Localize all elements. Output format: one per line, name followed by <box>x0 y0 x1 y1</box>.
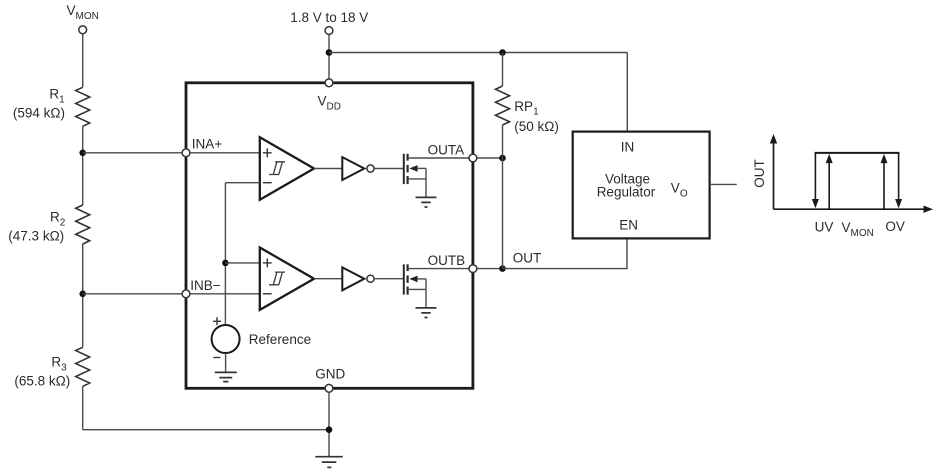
svg-text:(65.8 kΩ): (65.8 kΩ) <box>14 374 70 389</box>
wire reference to ground <box>225 353 227 372</box>
voltage source Reference <box>212 325 240 353</box>
pin OUTB <box>469 265 477 273</box>
resistor R2 <box>76 205 90 244</box>
svg-text:OUTB: OUTB <box>428 253 466 268</box>
node RP1 top junction dot <box>499 49 506 56</box>
arrowhead x-axis <box>924 206 934 213</box>
svg-text:Reference: Reference <box>249 332 311 347</box>
wire R1 to R2 <box>82 126 84 205</box>
wire reference vertical <box>224 183 226 326</box>
node OUTA junction dot <box>499 155 506 162</box>
graph y-axis OUT <box>773 142 775 210</box>
svg-text:1.8 V to 18 V: 1.8 V to 18 V <box>290 10 368 25</box>
node ground junction dot <box>326 426 333 433</box>
svg-text:(594 kΩ): (594 kΩ) <box>13 106 65 121</box>
wire node B to INB- <box>83 293 260 295</box>
wire R2 to R3 <box>82 244 84 347</box>
arrowhead y-axis <box>770 134 777 144</box>
svg-text:OV: OV <box>885 219 905 234</box>
waveform rising edge at OV (up arrow) <box>883 162 885 210</box>
main comparator IC box <box>186 83 473 389</box>
svg-text:INB−: INB− <box>190 278 221 293</box>
wire U1B out to buffer B <box>314 278 342 280</box>
node supply junction dot <box>326 49 333 56</box>
hysteresis symbol U1B <box>269 272 285 285</box>
svg-text:INA+: INA+ <box>192 136 223 151</box>
svg-text:OUT: OUT <box>513 251 542 266</box>
comparator U1A <box>260 137 314 199</box>
wire R3 to ground rail <box>82 386 84 429</box>
wire bottom ground rail <box>83 429 329 431</box>
voltage regulator box <box>573 132 710 239</box>
minus sign reference <box>213 357 220 359</box>
pin INB- <box>182 290 190 298</box>
pin GND <box>325 384 333 392</box>
wire VO output stub <box>710 183 737 185</box>
svg-text:UV: UV <box>815 220 834 235</box>
svg-text:OUTA: OUTA <box>428 142 465 157</box>
plus sign reference <box>213 317 221 325</box>
wire GND pin to ground <box>328 392 330 456</box>
wire drain Q1 to OUTA <box>408 157 503 159</box>
node OUTB junction dot <box>499 265 506 272</box>
hysteresis symbol U1A <box>269 162 285 175</box>
bubble buffer A <box>367 165 374 172</box>
resistor R1 <box>76 87 90 126</box>
graph x-axis <box>774 208 926 210</box>
wire U1A minus stub <box>225 182 259 184</box>
wire OUT to EN <box>503 238 628 268</box>
waveform rising edge at UV (up arrow) <box>828 162 830 210</box>
resistor RP1 <box>496 86 510 125</box>
resistor R3 <box>76 347 90 386</box>
wire V_MON to R1 <box>82 34 84 87</box>
buffer A <box>342 157 364 180</box>
node B junction dot <box>79 291 86 298</box>
waveform falling edge at UV (down arrow) <box>814 153 816 201</box>
bubble buffer B <box>367 275 374 282</box>
svg-text:(47.3 kΩ): (47.3 kΩ) <box>8 229 64 244</box>
terminal supply <box>325 27 333 35</box>
svg-text:EN: EN <box>619 217 638 232</box>
wire U1B plus stub <box>225 262 259 264</box>
ground Q1 <box>416 197 437 207</box>
svg-text:IN: IN <box>621 140 635 155</box>
comparator U1B <box>260 248 314 310</box>
svg-text:Regulator: Regulator <box>597 184 656 199</box>
pin OUTA <box>469 154 477 162</box>
terminal V_MON <box>79 26 87 34</box>
node A junction dot <box>79 150 86 157</box>
wire node A to INA+ <box>83 152 260 154</box>
wire top supply rail <box>329 52 627 54</box>
wire buffer A to gate Q1 <box>374 168 404 170</box>
transistor Q1 <box>404 154 426 198</box>
pin VDD <box>325 79 333 87</box>
ground Q2 <box>416 308 437 318</box>
waveform falling edge at OV (down arrow) <box>898 153 900 201</box>
wire rail down to regulator IN <box>626 53 628 132</box>
wire RP1 bottom to OUT node <box>502 125 504 269</box>
pin INA+ <box>182 149 190 157</box>
wire drain Q2 to OUTB <box>408 268 503 270</box>
svg-text:OUT: OUT <box>752 159 767 188</box>
buffer B <box>342 267 364 290</box>
svg-text:GND: GND <box>315 367 345 382</box>
wire U1A out to buffer A <box>314 168 342 170</box>
wire supply to VDD pin <box>328 35 330 83</box>
node reference junction dot <box>222 260 229 267</box>
ground reference <box>215 372 237 381</box>
waveform top line <box>815 152 900 154</box>
wire RP1 top <box>502 53 504 87</box>
wire buffer B to gate Q2 <box>374 278 404 280</box>
transistor Q2 <box>404 264 426 308</box>
ground main <box>315 457 342 468</box>
svg-text:(50 kΩ): (50 kΩ) <box>514 119 559 134</box>
